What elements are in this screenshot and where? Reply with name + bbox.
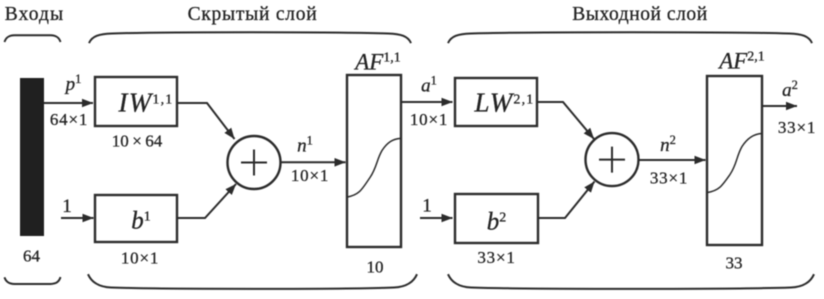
wire a1 arrow <box>401 101 453 103</box>
transfer box AF1 <box>347 75 401 247</box>
wire IW to sum1 <box>177 103 235 139</box>
svg-text:1: 1 <box>422 196 432 217</box>
wire b2 to sum2 <box>538 182 595 219</box>
svg-text:n2: n2 <box>660 133 676 156</box>
bottom brace output layer <box>448 274 814 289</box>
svg-text:10 × 64: 10 × 64 <box>112 132 163 151</box>
input vector bar <box>20 78 44 236</box>
top brace hidden layer <box>89 32 411 43</box>
wire LW to sum2 <box>537 102 594 139</box>
svg-text:Входы: Входы <box>5 4 64 25</box>
wire n2 arrow <box>639 159 706 161</box>
wire n1 arrow <box>281 161 346 163</box>
svg-text:64×1: 64×1 <box>50 110 88 129</box>
svg-text:10×1: 10×1 <box>121 249 159 268</box>
svg-text:64: 64 <box>23 247 41 266</box>
svg-text:a2: a2 <box>782 78 798 101</box>
svg-text:n1: n1 <box>297 134 313 157</box>
svg-text:AF2,1: AF2,1 <box>717 49 765 74</box>
bias box b2 <box>455 194 538 243</box>
bottom brace hidden layer <box>88 274 417 289</box>
svg-text:Скрытый слой: Скрытый слой <box>188 4 318 25</box>
plus sign 2 <box>599 147 625 173</box>
summation circle 1 <box>228 136 281 189</box>
weight box LW2,1 <box>455 78 537 126</box>
wire 1 to b1 arrow <box>61 217 94 219</box>
svg-text:Выходной слой: Выходной слой <box>572 4 707 25</box>
transfer box AF2 <box>707 76 762 245</box>
svg-text:b1: b1 <box>131 208 151 235</box>
sigmoid curve 1 <box>348 138 401 197</box>
svg-text:33: 33 <box>726 254 743 273</box>
sigmoid curve 2 <box>708 134 762 193</box>
svg-text:10×1: 10×1 <box>291 166 329 185</box>
svg-text:33×1: 33×1 <box>778 118 816 137</box>
wire p1 arrow <box>44 102 93 104</box>
wire a2 arrow <box>762 105 797 107</box>
plus sign 1 <box>241 150 267 176</box>
svg-text:IW1,1: IW1,1 <box>118 88 174 118</box>
svg-text:LW2,1: LW2,1 <box>473 88 534 118</box>
wire b1 to sum1 <box>177 184 236 218</box>
summation circle 2 <box>586 133 639 186</box>
svg-text:33×1: 33×1 <box>477 248 515 267</box>
bias box b1 <box>95 195 177 242</box>
top brace output layer <box>448 32 812 43</box>
svg-text:10×1: 10×1 <box>410 110 448 129</box>
svg-text:AF1,1: AF1,1 <box>353 50 401 75</box>
svg-text:10: 10 <box>367 258 384 277</box>
svg-text:p1: p1 <box>64 72 82 95</box>
top bracket inputs <box>5 35 61 42</box>
wire 1 to b2 arrow <box>420 217 453 219</box>
svg-text:b2: b2 <box>487 209 507 236</box>
svg-text:33×1: 33×1 <box>650 169 688 188</box>
bottom bracket inputs <box>5 277 61 284</box>
weight box IW1,1 <box>95 77 177 126</box>
svg-text:a1: a1 <box>421 74 437 97</box>
svg-text:1: 1 <box>62 196 72 217</box>
